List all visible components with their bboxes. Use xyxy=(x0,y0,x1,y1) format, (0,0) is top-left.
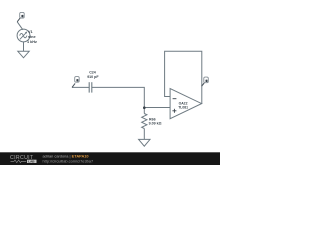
node a flag (capacitor input) xyxy=(72,77,79,88)
wire feedback loop xyxy=(165,51,202,103)
svg-text:C24: C24 xyxy=(89,71,96,75)
CircuitLab logo xyxy=(10,155,37,163)
svg-text:V1: V1 xyxy=(28,30,33,34)
wire xyxy=(143,129,145,140)
node junction dot xyxy=(143,106,146,109)
ground (R66) xyxy=(139,139,150,146)
wire xyxy=(17,22,23,30)
op-amp OA22 TL081 xyxy=(170,89,202,119)
svg-text:910 pF: 910 pF xyxy=(87,75,99,79)
capacitor C24 xyxy=(89,82,92,92)
wire xyxy=(92,87,144,107)
ground (V1) xyxy=(18,51,29,58)
svg-text:LAB: LAB xyxy=(28,160,35,164)
node b flag (output) xyxy=(202,77,209,86)
wire xyxy=(143,108,145,114)
svg-text:9.09 kΩ: 9.09 kΩ xyxy=(149,122,162,126)
node a flag (top) xyxy=(17,12,24,21)
V1 labels xyxy=(27,30,37,44)
svg-text:http://circuitlab.com/c/7e3ba7: http://circuitlab.com/c/7e3ba7 xyxy=(43,159,94,164)
R66 value labels xyxy=(149,118,162,126)
resistor R66 xyxy=(142,114,147,129)
footer credit text xyxy=(43,154,94,164)
svg-text:sine: sine xyxy=(28,35,36,39)
svg-text:1 kHz: 1 kHz xyxy=(27,40,37,44)
voltage source V1 xyxy=(17,29,30,42)
wire xyxy=(72,86,89,88)
wire xyxy=(144,107,170,109)
svg-text:TL081: TL081 xyxy=(178,105,188,109)
C24 value labels xyxy=(87,71,99,80)
footer bar xyxy=(0,152,220,165)
wire xyxy=(23,42,25,51)
